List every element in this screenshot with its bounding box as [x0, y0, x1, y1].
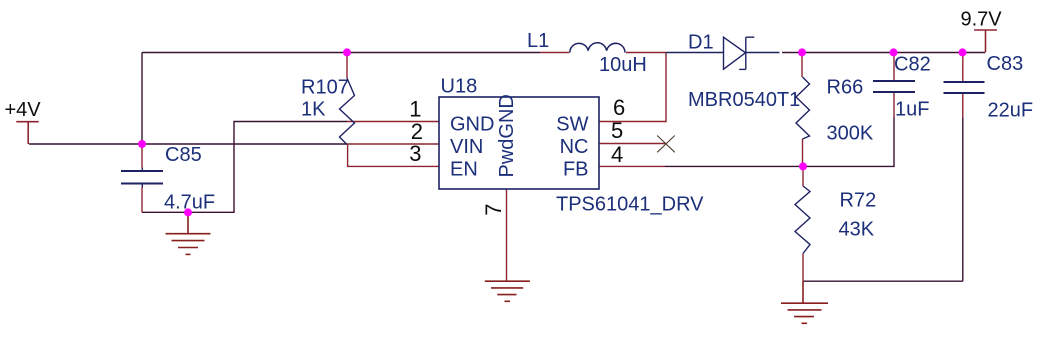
- resistor R107: [340, 53, 355, 145]
- port 9.7V: [974, 30, 997, 53]
- svg-text:SW: SW: [556, 114, 588, 136]
- svg-text:7: 7: [481, 204, 506, 216]
- svg-text:MBR0540T1: MBR0540T1: [688, 89, 800, 111]
- junction node C85 ground: [184, 208, 192, 216]
- svg-text:C82: C82: [894, 54, 931, 76]
- wire pin 7 stub: [506, 189, 508, 281]
- wire C83 bottom vertical: [962, 117, 964, 281]
- port +4V: [16, 122, 38, 144]
- svg-text:D1: D1: [688, 32, 714, 54]
- wire pin 6 SW: [599, 53, 666, 122]
- wire GND net to pin 1: [142, 122, 347, 213]
- capacitor C83: [944, 53, 985, 118]
- svg-text:C83: C83: [987, 53, 1024, 75]
- svg-text:TPS61041_DRV: TPS61041_DRV: [556, 194, 704, 216]
- svg-text:300K: 300K: [827, 123, 874, 145]
- wire pin 2 red segment: [347, 143, 439, 145]
- svg-text:+4V: +4V: [5, 99, 42, 121]
- wire pin 1 red segment: [347, 121, 439, 123]
- junction node FB: [799, 162, 807, 170]
- wire pin 4 stub: [599, 165, 665, 167]
- op-amp U18 box: [439, 97, 599, 189]
- capacitor C85: [121, 144, 163, 212]
- svg-text:FB: FB: [563, 159, 589, 181]
- junction node R107 top: [343, 48, 351, 56]
- junction node C83 top: [959, 48, 967, 56]
- svg-text:R66: R66: [827, 77, 864, 99]
- svg-text:VIN: VIN: [450, 136, 483, 158]
- svg-text:5: 5: [611, 118, 623, 143]
- junction node C82 top: [890, 48, 898, 56]
- svg-text:R72: R72: [840, 190, 877, 212]
- wire top horizontal: [142, 52, 540, 54]
- svg-text:22uF: 22uF: [988, 100, 1034, 122]
- wire L1 right stub: [626, 52, 666, 54]
- resistor R72: [795, 166, 810, 281]
- junction node D1/R66: [798, 48, 806, 56]
- wire top right section: [782, 52, 985, 54]
- svg-text:1uF: 1uF: [895, 99, 929, 121]
- svg-text:4: 4: [611, 142, 623, 167]
- wire FB net: [665, 117, 894, 166]
- wire pin 5 stub: [599, 143, 666, 145]
- svg-text:3: 3: [409, 141, 421, 166]
- diode D1: [666, 37, 780, 69]
- svg-text:1K: 1K: [301, 99, 326, 121]
- svg-text:9.7V: 9.7V: [961, 9, 1003, 31]
- no-connect X on pin 5: [657, 136, 675, 153]
- capacitor C82: [873, 53, 915, 118]
- svg-text:6: 6: [613, 95, 625, 120]
- svg-text:1: 1: [409, 96, 421, 121]
- resistor R66: [796, 53, 810, 167]
- svg-text:U18: U18: [441, 76, 478, 98]
- svg-text:R107: R107: [301, 77, 349, 99]
- svg-text:GND: GND: [450, 114, 494, 136]
- wire L1 left stub: [540, 52, 569, 54]
- wire bottom horizontal: [803, 280, 963, 282]
- wire left vertical: [141, 53, 143, 145]
- ground under R72: [781, 281, 828, 323]
- svg-text:NC: NC: [560, 136, 589, 158]
- svg-text:10uH: 10uH: [599, 54, 647, 76]
- inductor L1: [570, 43, 625, 53]
- svg-text:C85: C85: [165, 144, 202, 166]
- svg-text:L1: L1: [527, 30, 549, 52]
- wire EN net: [348, 144, 439, 166]
- ground under pin 7: [485, 281, 530, 301]
- svg-text:43K: 43K: [839, 219, 875, 241]
- ground under C85: [166, 212, 211, 254]
- svg-text:EN: EN: [450, 159, 478, 181]
- svg-text:PwdGND: PwdGND: [496, 94, 518, 177]
- wire +4V net horizontal: [29, 143, 347, 145]
- junction node +4V/C85: [138, 140, 146, 148]
